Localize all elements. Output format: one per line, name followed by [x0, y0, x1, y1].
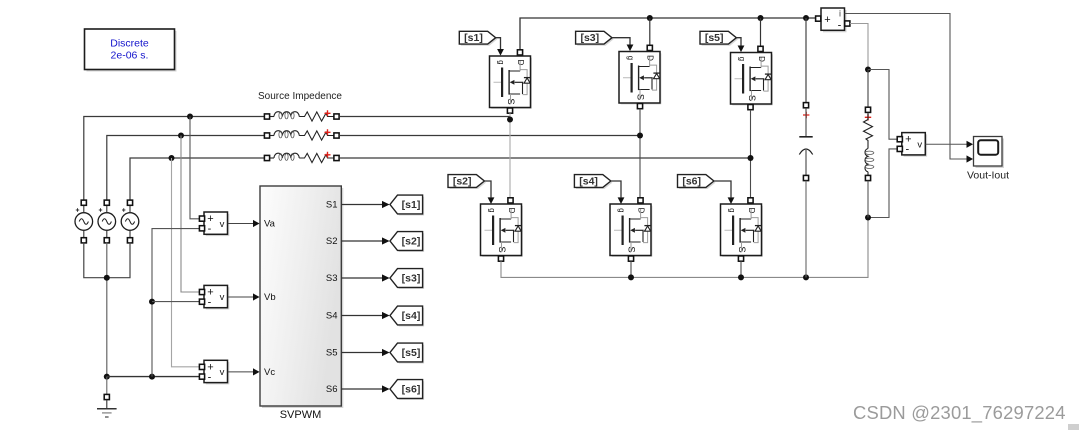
svg-text:Vb: Vb — [264, 292, 276, 303]
wire phase C to leg3 — [339, 157, 750, 159]
svg-text:Source Impedence: Source Impedence — [258, 91, 342, 102]
goto tag s1 — [390, 195, 424, 215]
svg-text:[s6]: [s6] — [682, 176, 701, 188]
wire s3 to g3 — [612, 38, 630, 45]
svg-text:S4: S4 — [326, 311, 338, 322]
mosfet block M4 (lower leg2) — [610, 198, 653, 261]
from tag s4 — [574, 175, 624, 204]
wire i out to scope — [845, 14, 967, 160]
wire phase A left — [84, 117, 265, 201]
wire source2 bottom down — [106, 243, 108, 377]
svg-text:[s1]: [s1] — [402, 199, 421, 211]
from tag s3 — [576, 31, 634, 51]
mosfet block M6 (lower leg3) — [721, 198, 764, 261]
node neutral-ground — [104, 374, 110, 380]
AC source Vb — [98, 200, 116, 243]
node load top — [865, 67, 871, 73]
svg-text:S3: S3 — [326, 273, 338, 284]
svg-text:[s3]: [s3] — [402, 273, 421, 285]
wire S6 to rail — [740, 261, 742, 277]
svg-text:[s3]: [s3] — [580, 32, 599, 44]
RL branch phase C — [264, 152, 339, 163]
mosfet block M2 (lower leg1) — [481, 198, 524, 261]
svg-text:[s5]: [s5] — [402, 347, 421, 359]
node neutral — [104, 275, 110, 281]
node rail leg2 — [647, 15, 653, 21]
wire phase B left — [107, 136, 265, 201]
wire s1 to g1 — [496, 38, 501, 49]
wire Vc out — [228, 371, 253, 373]
wire Va- bus — [152, 229, 201, 377]
DC+ rail — [520, 18, 815, 50]
goto tag s5 — [390, 343, 424, 363]
subsystem block SVPWM — [260, 186, 343, 421]
node minus bus bottom — [149, 374, 155, 380]
svg-text:[s4]: [s4] — [402, 310, 421, 322]
from tag s6 — [678, 175, 735, 204]
wire Vout to scope — [926, 143, 967, 145]
wire S2 out — [341, 240, 382, 242]
wire i minus down — [850, 24, 868, 69]
wire vload minus — [868, 149, 899, 218]
node leg2 phase — [637, 133, 643, 139]
wire source3 bottom to neutral — [107, 243, 130, 278]
arrow scope in2 — [967, 155, 974, 162]
RL load branch — [864, 70, 874, 218]
RL branch phase A (Source Impedence) — [264, 110, 339, 121]
node rail capacitor — [803, 15, 809, 21]
svg-text:2e-06 s.: 2e-06 s. — [111, 50, 149, 62]
svg-text:Vout-Iout: Vout-Iout — [967, 170, 1009, 182]
voltage measurement block Va — [199, 212, 259, 236]
wire leg2 phase vertical — [639, 109, 641, 199]
voltage measurement block Vb — [199, 285, 259, 309]
wire S1 out — [341, 204, 382, 206]
from tag s1 — [459, 31, 504, 55]
RL branch phase B — [264, 129, 339, 140]
mosfet block M5 (upper leg3) — [731, 46, 774, 109]
AC source Va — [75, 200, 93, 243]
wire s6 to g6 — [714, 181, 731, 197]
powergui block Discrete 2e-06 s. — [85, 29, 177, 72]
node load bottom join — [865, 215, 871, 221]
mosfet block M1 (upper leg1) — [490, 50, 533, 113]
node rail leg3 — [758, 15, 764, 21]
ground symbol — [97, 377, 117, 417]
wire rail to D2 — [649, 18, 651, 46]
wire s5 to g5 — [736, 38, 741, 46]
voltage measurement block Vc — [199, 360, 259, 384]
current measurement block Iout — [816, 8, 850, 32]
wire S6 out — [341, 388, 382, 390]
mosfet block M3 (upper leg2) — [619, 45, 662, 108]
svg-text:S5: S5 — [326, 348, 338, 359]
node leg1 phase — [507, 117, 513, 123]
svg-text:[s1]: [s1] — [464, 32, 483, 44]
svg-text:[s6]: [s6] — [402, 384, 421, 396]
wire Vb out — [228, 296, 253, 298]
node rail S4 — [628, 274, 634, 280]
wire tap B to Vb+ — [181, 136, 200, 293]
voltage measurement block Vout — [897, 133, 973, 157]
wire leg1 phase vertical — [509, 113, 511, 199]
wire rail to capacitor — [805, 18, 807, 103]
node rail capacitor bottom — [803, 274, 809, 280]
node phase B tap — [178, 133, 184, 139]
svg-text:[s2]: [s2] — [402, 236, 421, 248]
wire leg3 phase vertical — [750, 110, 752, 199]
wire s4 to g4 — [611, 181, 621, 197]
wire Va out — [228, 223, 253, 225]
svg-text:i: i — [839, 9, 841, 19]
capacitor C (DC link) — [799, 103, 812, 278]
wire phase A to leg1 — [339, 116, 510, 118]
svg-text:[s5]: [s5] — [705, 32, 724, 44]
goto tag s6 — [390, 380, 424, 400]
svg-text:[s4]: [s4] — [579, 176, 598, 188]
wire source1 bottom to neutral — [84, 243, 107, 278]
wire S3 out — [341, 277, 382, 279]
node rail S6 — [738, 274, 744, 280]
wire S4 to rail — [630, 261, 632, 277]
from tag s2 — [448, 175, 494, 204]
wire phase C left — [130, 158, 264, 200]
goto tag s4 — [390, 306, 424, 326]
node phase A tap — [187, 114, 193, 120]
goto tag s3 — [390, 269, 424, 289]
wire S5 out — [341, 352, 382, 354]
AC source Vc — [121, 200, 139, 243]
node leg3 phase — [748, 155, 754, 161]
node phase C tap — [169, 155, 175, 161]
svg-text:SVPWM: SVPWM — [280, 409, 322, 421]
wire neutral rail to Vc- — [107, 376, 200, 378]
svg-text:S2: S2 — [326, 236, 338, 247]
svg-text:S1: S1 — [326, 200, 338, 211]
from tag s5 — [700, 31, 744, 52]
svg-text:[s2]: [s2] — [453, 176, 472, 188]
wire s2 to g2 — [484, 181, 491, 197]
svg-text:Vc: Vc — [264, 367, 275, 378]
DC- rail — [501, 218, 868, 278]
scope block Vout-Iout — [967, 137, 1009, 182]
wire tap C to Vc+ — [172, 158, 201, 367]
svg-text:+: + — [824, 14, 830, 26]
wire rail to D3 — [760, 18, 762, 47]
wire phase B to leg2 — [339, 135, 640, 137]
svg-text:CSDN @2301_76297224: CSDN @2301_76297224 — [853, 402, 1066, 424]
svg-text:Va: Va — [264, 219, 276, 230]
wire S4 out — [341, 315, 382, 317]
svg-text:-: - — [838, 20, 842, 32]
node Va-/Vb- join — [149, 299, 155, 305]
svg-text:Discrete: Discrete — [110, 38, 149, 50]
svg-text:S6: S6 — [326, 384, 338, 395]
wire to vload plus — [868, 70, 899, 140]
wire Vb- to bus — [152, 301, 201, 303]
goto tag s2 — [390, 232, 424, 252]
wire tap A to Va+ — [190, 117, 200, 219]
